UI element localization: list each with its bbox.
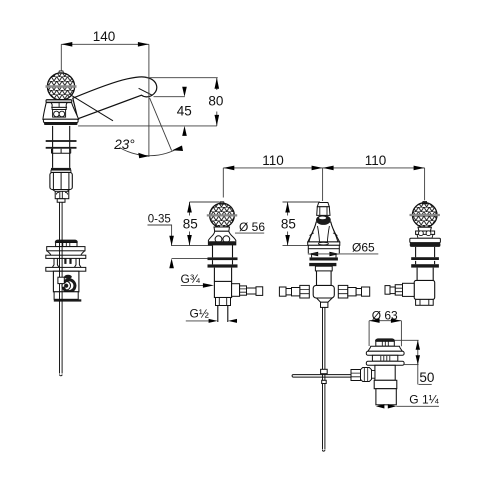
center T right pipe (356, 289, 361, 295)
rod clevis square (58, 277, 64, 283)
dimension 50 underline (419, 383, 432, 385)
center spout dark ellipse (316, 215, 331, 225)
right valve bottom nut (416, 299, 434, 305)
shank tube (53, 126, 70, 168)
G1/2 leader line + arrows (186, 320, 237, 322)
drain lever rod (292, 375, 351, 378)
neck ring (52, 107, 66, 109)
dimension 45 ref line (154, 96, 185, 98)
right valve left outlet (403, 283, 415, 296)
waste ball mechanism (62, 281, 71, 290)
right valve ball (412, 203, 437, 228)
110 right arrow (414, 166, 425, 171)
left valve washers (208, 257, 238, 260)
center T body (313, 285, 334, 298)
left valve collar (214, 227, 230, 231)
waste cylinder (53, 271, 79, 292)
23 degree arc (120, 147, 182, 156)
rod clevis lower (322, 380, 327, 383)
center spout tip (317, 203, 329, 207)
svg-text:G½: G½ (190, 307, 209, 321)
110 extension lines (223, 168, 424, 201)
right drain bell (368, 346, 402, 351)
lower deck ref line (172, 257, 208, 259)
0-35 down arrow (169, 236, 174, 246)
right valve flange (410, 238, 441, 242)
center spout neck (317, 207, 330, 216)
dimension 85 left line (189, 202, 191, 246)
dimension 80 arrows (215, 78, 220, 89)
right drain trap body (375, 365, 395, 380)
dimension 85 center: top ref (283, 201, 321, 203)
center vertical rod (323, 307, 325, 451)
spout body (73, 77, 157, 119)
center T bottom block (321, 302, 328, 307)
svg-text:23°: 23° (113, 137, 135, 152)
left valve right outlet (232, 284, 240, 297)
tailpiece (57, 199, 65, 203)
left valve tube (214, 268, 231, 282)
center spout nut (315, 266, 332, 271)
right drain cap skirt (376, 341, 395, 346)
right valve washers (411, 257, 439, 260)
svg-text:G¾: G¾ (181, 272, 201, 286)
base flange (43, 119, 78, 122)
svg-text:G 1¼: G 1¼ (409, 393, 439, 407)
110 left arrow (223, 166, 234, 171)
svg-text:85: 85 (281, 216, 296, 231)
G3/4 leader arrow (181, 284, 207, 286)
rod clevis upper (321, 369, 328, 373)
base bell (43, 103, 79, 120)
center T left hex (300, 285, 310, 298)
right valve collar (418, 227, 431, 231)
pop-up waste cap skirt (56, 243, 77, 247)
23 degree slope line (150, 98, 172, 151)
dimension 80 line (216, 78, 218, 126)
23 degree arc arrows (138, 153, 148, 159)
center T left connector (292, 288, 300, 296)
svg-text:110: 110 (262, 153, 284, 168)
center T bottom trapezoid (317, 298, 333, 302)
right valve shank (416, 247, 435, 264)
right valve body (414, 280, 435, 299)
left valve pipe (247, 288, 257, 294)
waste bell (47, 251, 85, 255)
tap ball top nub (59, 71, 64, 74)
right valve ball nub (422, 201, 427, 203)
dimension 110 line (223, 167, 424, 169)
svg-text:Ø 56: Ø 56 (239, 220, 265, 234)
right drain coupling ring (374, 380, 397, 388)
dimension 140 left arrow (61, 42, 72, 47)
pop-up rod (60, 202, 63, 376)
waste bottom step (54, 292, 78, 300)
left valve base (208, 231, 235, 245)
left valve base dark band (208, 241, 236, 245)
waste mid body columns (52, 258, 81, 267)
center spout base plate (308, 242, 340, 245)
svg-text:50: 50 (419, 370, 434, 385)
diameter 65 arrows (308, 252, 318, 256)
right drain bar 1 (366, 351, 404, 355)
neck circles (54, 111, 60, 117)
shank washer 2 (46, 147, 77, 149)
right drain bar 2 (366, 361, 404, 365)
left valve bottom nut (216, 298, 231, 306)
dimension 140 line (61, 43, 149, 45)
center spout tube (317, 271, 332, 286)
center T left pipe (279, 287, 286, 296)
left valve ball (210, 203, 235, 228)
waste bar 3 (46, 267, 86, 271)
0-35 up arrow (169, 258, 174, 268)
waste bar 2 (46, 255, 86, 258)
dimension 45 arrows (outside) (182, 87, 187, 97)
svg-text:0-35: 0-35 (148, 213, 171, 225)
diameter 63 extension lines (369, 321, 401, 347)
svg-text:80: 80 (208, 93, 223, 108)
dimension 140 right arrow (138, 42, 149, 47)
center spout fold lines (318, 226, 330, 242)
left valve hex connector (240, 286, 247, 295)
dimension 50 top ref (395, 339, 419, 341)
dimension 50 line (417, 340, 419, 384)
small nut (53, 190, 70, 192)
svg-text:45: 45 (177, 104, 192, 119)
right drain hex (351, 370, 361, 381)
spout aerator line (139, 88, 153, 95)
dimension 85 left arrows (187, 202, 192, 213)
right drain mid (372, 355, 397, 361)
waste top flange (47, 247, 85, 251)
neck body (53, 110, 66, 118)
right valve pipe (385, 286, 390, 295)
left valve shank (213, 245, 233, 265)
deck ref line right group (171, 245, 213, 247)
base flange dark band (44, 123, 78, 126)
left valve outlet tube G1/2 (218, 306, 228, 323)
deck ref line center (283, 245, 308, 247)
center T right hex (338, 285, 348, 298)
diameter 63 arrows (369, 319, 380, 323)
right drain ball joint (361, 368, 372, 382)
right drain tailpipe (376, 389, 396, 405)
right drain cap disc (375, 338, 395, 341)
pop-up waste cap dome (55, 240, 78, 243)
G 1 1/4 leader + arrows (396, 405, 439, 407)
right valve tube (417, 268, 433, 281)
center spout body (308, 222, 340, 242)
dimension 50 bottom ref (404, 364, 419, 366)
dimension 50 arrows (416, 340, 420, 350)
center spout washers (312, 253, 336, 257)
diameter 56 leader (235, 232, 264, 234)
tube end bands (51, 168, 71, 170)
svg-text:140: 140 (93, 29, 116, 44)
svg-text:110: 110 (365, 153, 387, 168)
left valve body (214, 281, 231, 297)
dimension 85 center line (287, 202, 289, 246)
svg-text:Ø65: Ø65 (352, 241, 375, 255)
dimension 85 left: top ref (190, 201, 220, 203)
shank washer 1 (46, 140, 77, 142)
ball equator ring (46, 85, 77, 87)
tap ball handle (47, 73, 74, 100)
hex nut (50, 172, 72, 189)
extension line through spout outlet (148, 44, 150, 157)
diameter 63 dim line (369, 320, 401, 322)
neck hourglass (51, 103, 67, 108)
dimension 85 center arrows (285, 202, 290, 213)
extension line over ball (60, 44, 62, 71)
110 middle arrows (312, 166, 323, 171)
shank nut below washers (52, 149, 71, 154)
deck line (78, 125, 217, 127)
ball collar (46, 100, 72, 103)
left valve base circles (215, 236, 222, 243)
diameter 65 leader (308, 253, 379, 255)
left valve ball nub (220, 202, 225, 204)
right valve hex connector (395, 285, 402, 295)
right drain joint step (372, 371, 375, 379)
tap neck silhouette line (72, 95, 114, 120)
center T right connector (348, 288, 356, 296)
dimension 80 top ref line (146, 77, 217, 79)
svg-text:85: 85 (183, 216, 198, 231)
0-35 leader (148, 225, 172, 245)
